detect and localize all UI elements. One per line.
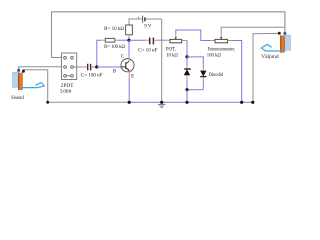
wire: ground bus right (blue): [129, 101, 253, 103]
node: emitter ground junction: [128, 101, 131, 104]
ground: [158, 104, 165, 107]
wire: input jack tip to switch: [18, 67, 20, 71]
node: diode ground junction: [185, 101, 188, 104]
wire: emitter to ground: [128, 71, 130, 79]
wire: switch to capacitor C1: [73, 66, 81, 68]
wire: P1 wiper loop to P2 left: [176, 30, 211, 41]
svg-text:Lüliti: Lüliti: [60, 88, 72, 94]
diode D2 (pointing down): [202, 67, 204, 71]
wire: base junction to transistor base: [97, 66, 121, 68]
node: base junction: [95, 65, 98, 68]
node: battery ground junction: [160, 101, 163, 104]
capacitor C1 100nF: [88, 64, 91, 71]
svg-text:Dioodid: Dioodid: [209, 72, 224, 78]
node: diode bottom junction: [185, 88, 188, 91]
wire: output jack sleeve to ground: [253, 33, 279, 102]
svg-text:Sisend: Sisend: [11, 95, 24, 101]
svg-text:100 kΩ: 100 kΩ: [207, 52, 221, 58]
wire: collector: [128, 40, 130, 56]
wire: R1 bottom to collector node: [128, 35, 130, 38]
wire: P1 right to diodes: [182, 40, 187, 42]
potentiometer P1 10k: [166, 39, 170, 41]
node: output sleeve ground junction: [251, 101, 254, 104]
transistor Q1: [121, 59, 134, 72]
wire: top bypass rail from switch to output jack: [52, 12, 285, 58]
wire: diode junction to ground: [186, 90, 188, 103]
wire: collector node to capacitor C2: [129, 39, 145, 41]
svg-text:9 V: 9 V: [144, 23, 151, 29]
potentiometer P2 100k: [211, 40, 215, 42]
P1 wiper arrow: [175, 34, 177, 38]
switch S1 2PDT: [62, 53, 77, 80]
svg-text:Väljund: Väljund: [261, 54, 279, 60]
diode D1 (pointing up): [186, 57, 188, 66]
battery B1 9V: [137, 14, 162, 22]
wire: rail stub into switch top-left pin: [52, 57, 62, 59]
wire: diode bottoms join: [187, 89, 203, 91]
wire: input jack sleeve to ground: [23, 70, 47, 103]
svg-text:E: E: [131, 75, 134, 80]
svg-text:C= 10 nF: C= 10 nF: [138, 48, 157, 54]
resistor R1 10k (vertical): [126, 25, 133, 35]
capacitor C2 10nF: [150, 38, 154, 45]
wire: branch to right diode: [187, 57, 203, 67]
output jack J2: [278, 32, 291, 53]
svg-text:R= 100 kΩ: R= 100 kΩ: [104, 44, 125, 50]
input jack J1: [13, 69, 25, 90]
input plug: [20, 83, 44, 88]
node: collector junction: [127, 39, 130, 42]
svg-text:10 kΩ: 10 kΩ: [166, 53, 178, 59]
svg-text:R= 10 kΩ: R= 10 kΩ: [104, 26, 124, 32]
wire: battery negative down to ground: [161, 19, 163, 102]
wire: ground bus left (gray): [48, 101, 129, 103]
wire: battery positive to R1 top: [129, 19, 142, 25]
node: diode branch junction: [185, 55, 188, 58]
node: P2 ground junction: [240, 101, 243, 104]
resistor R2 100k (horizontal, feedback): [97, 40, 101, 67]
output plug: [261, 44, 284, 51]
svg-text:C: C: [121, 55, 124, 60]
wire: P2 right to ground: [228, 40, 233, 42]
svg-text:C= 100 nF: C= 100 nF: [81, 72, 103, 78]
wire: pot2 wiper line to output jack: [221, 27, 285, 34]
node: input ground corner junction: [46, 101, 49, 104]
